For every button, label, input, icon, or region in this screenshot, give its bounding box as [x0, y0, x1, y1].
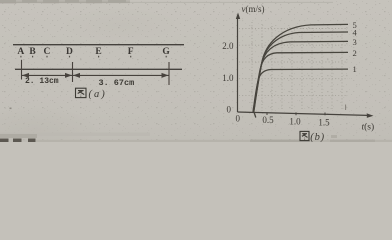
svg-text:0: 0	[227, 105, 232, 115]
svg-text:0.5: 0.5	[262, 115, 274, 125]
svg-text:(b): (b)	[310, 132, 325, 142]
svg-text:v(m/s): v(m/s)	[242, 4, 265, 14]
svg-text:(a): (a)	[89, 89, 107, 100]
svg-text:0: 0	[236, 113, 241, 123]
svg-text:3: 3	[353, 37, 357, 47]
svg-text:2: 2	[353, 48, 357, 58]
svg-text:2.0: 2.0	[222, 41, 234, 51]
svg-text:1: 1	[353, 64, 357, 74]
svg-text:1.5: 1.5	[318, 118, 330, 128]
svg-text:F: F	[128, 47, 134, 57]
svg-text:A: A	[17, 47, 24, 57]
svg-text:t(s): t(s)	[362, 122, 375, 133]
svg-text:C: C	[43, 47, 50, 57]
svg-text:1.0: 1.0	[222, 73, 234, 83]
svg-text:2. 13cm: 2. 13cm	[25, 77, 59, 86]
svg-text:G: G	[162, 47, 170, 57]
svg-text:1.0: 1.0	[289, 117, 301, 127]
svg-text:3. 67cm: 3. 67cm	[99, 78, 135, 88]
svg-text:B: B	[29, 47, 36, 57]
svg-text:D: D	[66, 47, 73, 57]
svg-text:E: E	[95, 47, 101, 57]
